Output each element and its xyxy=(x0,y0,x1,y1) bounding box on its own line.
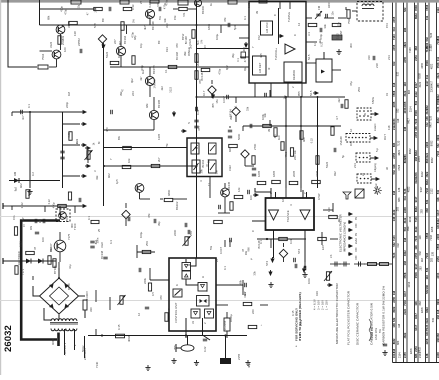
svg-text:532: 532 xyxy=(425,37,429,42)
svg-text:10.7: 10.7 xyxy=(202,90,206,96)
wire w38 xyxy=(239,37,249,39)
svg-text:0.1: 0.1 xyxy=(234,105,238,109)
svg-text:4 = 6.3V: 4 = 6.3V xyxy=(313,299,317,310)
wire w25 xyxy=(83,205,85,207)
svg-text:S: S xyxy=(187,122,191,124)
capacitor CH10 xyxy=(295,264,297,268)
svg-text:5-p: 5-p xyxy=(375,148,379,152)
svg-text:218: 218 xyxy=(375,63,379,68)
wire T1 top to bridge xyxy=(58,315,60,320)
svg-text:3122: 3122 xyxy=(419,81,422,87)
svg-text:4822: 4822 xyxy=(431,63,434,69)
resistor RH21 xyxy=(26,251,35,254)
resistor RH28 xyxy=(318,237,327,240)
svg-text:4k7: 4k7 xyxy=(118,40,122,45)
svg-text:15n: 15n xyxy=(12,215,16,220)
wire w54 xyxy=(289,2,291,10)
resistor RV4 xyxy=(53,259,56,268)
svg-text:39: 39 xyxy=(255,10,259,14)
wire w39 xyxy=(240,56,249,58)
resistor RH27 xyxy=(279,237,288,240)
svg-text:BF245: BF245 xyxy=(227,181,231,190)
svg-text:8932: 8932 xyxy=(414,13,418,19)
svg-text:3122: 3122 xyxy=(188,38,192,45)
capacitor CH23 xyxy=(341,104,343,108)
svg-text:0.047: 0.047 xyxy=(219,247,223,254)
svg-text:532: 532 xyxy=(419,251,422,256)
svg-text:330: 330 xyxy=(89,307,93,312)
svg-text:4k7: 4k7 xyxy=(139,76,143,81)
svg-text:21: 21 xyxy=(361,172,365,176)
bridge diode D13 xyxy=(65,304,70,309)
legend brace xyxy=(369,319,371,341)
connector socket J1 xyxy=(357,108,371,120)
svg-text:2155: 2155 xyxy=(237,353,241,360)
svg-text:2405: 2405 xyxy=(242,46,246,52)
svg-text:ST2: ST2 xyxy=(265,260,269,266)
resistor RV21 xyxy=(252,156,255,165)
resistor RH20 xyxy=(58,204,67,207)
capacitor CV8 xyxy=(90,246,94,248)
svg-text:AM: AM xyxy=(13,171,17,176)
svg-text:2154: 2154 xyxy=(419,352,422,358)
arrow feed y112 xyxy=(81,111,86,114)
svg-text:0508: 0508 xyxy=(418,73,421,79)
svg-text:2206: 2206 xyxy=(421,307,424,313)
resistor RV5 xyxy=(192,30,195,39)
svg-text:39: 39 xyxy=(267,128,271,132)
svg-text:52.5: 52.5 xyxy=(309,90,313,96)
junction J10 xyxy=(300,125,302,127)
svg-text:4k7: 4k7 xyxy=(143,25,147,30)
resistor RH23 xyxy=(308,23,317,26)
svg-text:5p6: 5p6 xyxy=(233,25,237,30)
svg-text:IMPEDANCE (20kΩ/V): IMPEDANCE (20kΩ/V) xyxy=(343,222,347,252)
legend symbol flatfoil xyxy=(344,262,346,267)
svg-text:138: 138 xyxy=(425,116,429,121)
capacitor CH2 xyxy=(109,7,111,11)
svg-text:4n7: 4n7 xyxy=(21,115,25,120)
wire w72 xyxy=(229,240,231,247)
legend loudspeaker symbol xyxy=(343,192,351,199)
terminal T2 xyxy=(3,260,21,262)
svg-text:2455: 2455 xyxy=(392,101,396,107)
capacitor CV7 xyxy=(90,241,94,243)
wire w91 xyxy=(140,198,151,200)
svg-text:470p: 470p xyxy=(140,65,144,71)
svg-text:0.22: 0.22 xyxy=(203,346,207,352)
wire w24 xyxy=(59,206,61,215)
svg-text:0.22: 0.22 xyxy=(67,132,71,138)
svg-text:15n: 15n xyxy=(337,21,341,26)
svg-text:BF200: BF200 xyxy=(201,5,205,14)
wire w44 xyxy=(338,17,346,19)
transistor Q7 xyxy=(135,184,144,193)
svg-text:BF195: BF195 xyxy=(157,99,161,108)
transistor Q3 xyxy=(145,9,154,18)
capacitor CH17 xyxy=(128,217,130,221)
svg-text:TAPE: TAPE xyxy=(371,97,375,104)
svg-text:16: 16 xyxy=(281,198,285,202)
svg-text:IN: IN xyxy=(363,113,367,116)
svg-text:2xAA: 2xAA xyxy=(355,238,358,244)
svg-text:5600: 5600 xyxy=(237,133,241,140)
wire w77 xyxy=(11,206,13,210)
svg-text:330: 330 xyxy=(165,23,169,28)
varicap diamond VD3 xyxy=(122,210,130,218)
svg-text:3122: 3122 xyxy=(414,226,418,232)
svg-text:470: 470 xyxy=(105,127,109,132)
svg-text:138: 138 xyxy=(392,216,396,221)
IF transistor cell 3 xyxy=(192,160,200,173)
resistor RV24 xyxy=(230,202,233,211)
junction J11 xyxy=(317,125,319,127)
svg-text:283: 283 xyxy=(431,257,434,262)
svg-text:6k8: 6k8 xyxy=(302,137,306,142)
capacitor CH24 xyxy=(373,56,375,60)
capacitor CV4 xyxy=(60,157,64,159)
dashed box mains switch xyxy=(56,209,70,222)
signal arrow AD6 xyxy=(303,267,306,272)
legend symbol regulator xyxy=(368,263,377,266)
svg-text:820: 820 xyxy=(228,147,232,152)
junction J13 xyxy=(58,277,60,279)
wire w10 xyxy=(149,67,151,76)
wire w63 xyxy=(229,284,238,286)
bridge diode D10 xyxy=(49,284,54,289)
svg-text:0.1: 0.1 xyxy=(236,58,240,62)
svg-text:1 kMΩ 5%: 1 kMΩ 5% xyxy=(370,327,374,340)
svg-text:214: 214 xyxy=(353,163,357,168)
svg-text:33k: 33k xyxy=(263,113,267,118)
pot wiper PW4 xyxy=(85,150,93,160)
pot wiper PW1 xyxy=(183,236,191,246)
svg-text:532: 532 xyxy=(392,317,396,322)
svg-text:9417: 9417 xyxy=(414,196,418,202)
svg-text:118: 118 xyxy=(414,245,418,250)
svg-text:5%: 5% xyxy=(378,328,382,333)
svg-text:39k: 39k xyxy=(215,169,219,174)
svg-text:DIN: DIN xyxy=(355,224,358,229)
svg-text:31: 31 xyxy=(191,320,195,324)
svg-text:AM OSC: AM OSC xyxy=(265,22,269,33)
wire main vertical bus x196 xyxy=(196,4,198,258)
transistor Q5 xyxy=(145,76,154,85)
svg-text:2455: 2455 xyxy=(403,352,407,358)
diode D2 xyxy=(26,259,31,264)
svg-text:0.1: 0.1 xyxy=(164,69,168,73)
svg-text:042: 042 xyxy=(392,27,396,32)
wire w35 xyxy=(196,176,198,188)
wire w53 xyxy=(279,2,281,10)
resistor RH6 xyxy=(257,181,266,184)
wire w26 xyxy=(103,205,105,207)
resistor RV13 xyxy=(274,128,277,137)
wire w86 xyxy=(245,165,254,167)
svg-text:6800: 6800 xyxy=(167,189,171,196)
svg-text:52.5: 52.5 xyxy=(307,54,311,60)
legend sun symbol xyxy=(373,186,381,194)
wire U3 top link xyxy=(255,188,271,192)
wire w59 xyxy=(137,251,155,253)
wire w83 xyxy=(235,97,237,103)
svg-text:4822: 4822 xyxy=(425,171,429,177)
wire w12 xyxy=(153,97,155,110)
svg-text:DIN: DIN xyxy=(355,248,358,253)
svg-text:118: 118 xyxy=(392,190,396,195)
wire y112 branch xyxy=(12,111,82,113)
svg-text:118: 118 xyxy=(403,237,407,242)
svg-text:8932: 8932 xyxy=(425,179,429,185)
svg-text:BC: BC xyxy=(101,18,105,22)
signal arrow AR4 xyxy=(253,194,258,197)
wire w1 xyxy=(60,24,62,27)
svg-text:7133: 7133 xyxy=(425,252,429,258)
resistor RP1 xyxy=(68,192,71,200)
wire w97 xyxy=(283,243,285,247)
svg-text:7175: 7175 xyxy=(67,233,71,240)
svg-text:10µ: 10µ xyxy=(77,4,81,9)
resistor RH10 xyxy=(229,144,238,147)
resistor RH2 xyxy=(122,165,131,168)
capacitor CH11 xyxy=(320,28,322,32)
wire U4 bottom pin 2 xyxy=(203,318,211,340)
svg-text:118: 118 xyxy=(425,275,429,280)
ground GN2 xyxy=(145,365,150,370)
wire w7 xyxy=(120,25,122,46)
diode D1 xyxy=(14,178,19,183)
svg-text:3122: 3122 xyxy=(49,41,53,48)
wire mains lead 3 xyxy=(84,336,86,358)
svg-text:300: 300 xyxy=(349,43,353,48)
svg-text:7133: 7133 xyxy=(425,324,429,330)
varicap diamond VD5 xyxy=(208,86,216,94)
wire w33 xyxy=(270,239,272,248)
svg-text:7171: 7171 xyxy=(21,268,25,275)
mains connector tick xyxy=(57,333,60,347)
junction dot xyxy=(266,238,268,240)
resistor RV11 xyxy=(15,266,18,275)
resistor RH18 xyxy=(248,325,257,328)
wire w88 xyxy=(125,219,127,226)
svg-text:2206: 2206 xyxy=(430,86,433,92)
svg-text:2122: 2122 xyxy=(414,91,418,97)
svg-text:1M: 1M xyxy=(67,91,71,96)
svg-text:BF194: BF194 xyxy=(201,159,205,167)
wire w22 xyxy=(59,252,61,262)
capacitor CH1 xyxy=(80,49,82,53)
junction J12 xyxy=(196,165,198,167)
junction J7 xyxy=(103,165,105,167)
wire w56 xyxy=(11,112,13,116)
svg-text:7140: 7140 xyxy=(95,361,99,368)
transistor Q10 xyxy=(194,0,201,7)
table rule 9 xyxy=(436,3,438,363)
svg-text:8p2: 8p2 xyxy=(225,65,229,70)
transformer T1 core xyxy=(50,322,78,324)
svg-text:962: 962 xyxy=(19,183,23,188)
svg-text:8932: 8932 xyxy=(414,206,418,212)
table rule 6 xyxy=(417,3,419,363)
capacitor CV2 xyxy=(194,126,198,128)
svg-text:042: 042 xyxy=(392,61,396,66)
svg-text:042: 042 xyxy=(425,74,429,79)
resistor R1 xyxy=(38,65,48,69)
svg-text:5322: 5322 xyxy=(325,161,329,168)
svg-text:224: 224 xyxy=(131,91,135,96)
svg-text:0508: 0508 xyxy=(425,4,429,10)
svg-text:C: C xyxy=(251,230,255,232)
wire w32 xyxy=(335,125,341,127)
signal arrow AD1 xyxy=(102,43,105,48)
svg-text:3122: 3122 xyxy=(19,241,23,247)
wire y166 branch xyxy=(104,165,196,167)
junction J8 xyxy=(29,111,31,113)
svg-text:1N4148: 1N4148 xyxy=(339,136,343,146)
svg-text:39k: 39k xyxy=(183,51,187,56)
wire w34 xyxy=(304,262,306,268)
svg-text:683: 683 xyxy=(397,340,400,345)
capacitor CV6 xyxy=(252,174,256,176)
resistor RH9 xyxy=(312,180,321,183)
legend box-with-cross symbol xyxy=(355,189,364,198)
svg-text:7133: 7133 xyxy=(403,300,407,306)
svg-text:0508: 0508 xyxy=(425,60,429,66)
svg-text:7133: 7133 xyxy=(403,188,407,194)
table rule 4 xyxy=(406,3,408,363)
svg-text:118: 118 xyxy=(403,82,407,87)
svg-text:AFC: AFC xyxy=(327,2,331,8)
svg-text:47k: 47k xyxy=(223,17,227,22)
transistor Q4 xyxy=(116,46,125,55)
svg-text:1N4007: 1N4007 xyxy=(85,290,89,300)
resistor RH22 xyxy=(214,220,223,223)
svg-text:5k6: 5k6 xyxy=(196,40,200,45)
svg-text:0.5W: 0.5W xyxy=(317,193,321,200)
svg-text:7133: 7133 xyxy=(397,140,400,146)
wire w98 xyxy=(211,94,213,98)
svg-text:K: K xyxy=(175,284,179,286)
svg-text:2154: 2154 xyxy=(408,281,411,287)
capacitor C25 xyxy=(228,23,230,27)
svg-text:G: G xyxy=(187,264,191,266)
svg-text:042: 042 xyxy=(397,243,400,248)
wire w92 xyxy=(160,198,163,200)
capacitor CH20 xyxy=(265,93,267,97)
ground GN7 xyxy=(382,350,387,355)
svg-text:100n: 100n xyxy=(307,277,311,284)
svg-text:OUT: OUT xyxy=(383,134,387,140)
wire w70 xyxy=(330,238,338,240)
capacitor CH16 xyxy=(304,266,306,270)
transistor Q1 xyxy=(56,25,65,34)
capacitor CH14 xyxy=(230,238,232,242)
svg-text:15n: 15n xyxy=(330,11,334,16)
svg-text:2154: 2154 xyxy=(418,156,421,162)
svg-text:RECTIFIER: RECTIFIER xyxy=(17,251,21,265)
signal arrow AD4 xyxy=(212,93,215,98)
svg-text:3122: 3122 xyxy=(421,171,424,177)
svg-text:SW: SW xyxy=(21,217,25,222)
capacitor CH18 xyxy=(154,219,156,223)
svg-text:4822: 4822 xyxy=(408,186,411,192)
svg-text:8932: 8932 xyxy=(414,150,418,156)
IF transistor cell 4 xyxy=(209,160,217,173)
wire U3 left pin xyxy=(252,220,266,222)
svg-text:25: 25 xyxy=(97,228,101,232)
capacitor CH25 xyxy=(111,110,113,114)
legend arrow symbols xyxy=(348,213,352,216)
wire x30 vertical xyxy=(29,112,31,188)
svg-text:8p2: 8p2 xyxy=(13,186,17,191)
svg-text:1n: 1n xyxy=(313,42,317,46)
svg-text:CONTROL UNIT: CONTROL UNIT xyxy=(174,302,178,323)
svg-text:8932: 8932 xyxy=(403,157,407,163)
ground G1 xyxy=(336,49,341,54)
svg-text:283: 283 xyxy=(403,27,407,32)
svg-text:9417: 9417 xyxy=(392,352,396,358)
wire R40 down xyxy=(84,310,86,318)
wire w11 xyxy=(149,86,151,98)
wire top-left vertical xyxy=(39,0,41,25)
capacitor CH5 xyxy=(250,124,252,128)
svg-text:0.2: 0.2 xyxy=(31,172,35,176)
wire w94 xyxy=(224,206,226,213)
svg-text:2455: 2455 xyxy=(414,131,418,137)
svg-text:470: 470 xyxy=(175,43,179,48)
svg-text:3405: 3405 xyxy=(315,170,319,177)
resistor RV22 xyxy=(316,156,319,165)
svg-text:0.68: 0.68 xyxy=(289,238,293,244)
svg-text:39p: 39p xyxy=(157,221,161,226)
resistor RH13 xyxy=(94,7,103,10)
svg-text:39k: 39k xyxy=(38,218,42,223)
wire w49 xyxy=(173,8,178,10)
svg-text:960: 960 xyxy=(70,223,74,228)
svg-text:5322: 5322 xyxy=(105,51,109,58)
svg-text:5%: 5% xyxy=(209,245,213,250)
svg-text:4822: 4822 xyxy=(398,149,401,155)
resistor RH16 xyxy=(201,68,210,71)
wire T1 left lead xyxy=(44,308,51,320)
svg-text:11: 11 xyxy=(207,183,211,186)
svg-text:532: 532 xyxy=(396,108,399,113)
svg-text:0.1: 0.1 xyxy=(87,216,91,220)
wire w85 xyxy=(244,158,246,166)
svg-text:548: 548 xyxy=(93,23,97,28)
svg-text:0.22: 0.22 xyxy=(196,109,200,115)
svg-text:ITEMS TO BE ADDED (DEALERS): ITEMS TO BE ADDED (DEALERS) xyxy=(298,292,302,341)
top scan edge band xyxy=(0,0,439,3)
svg-text:0.22: 0.22 xyxy=(310,138,314,144)
svg-text:47µ: 47µ xyxy=(349,81,353,86)
svg-text:960: 960 xyxy=(246,247,250,252)
wire w76 xyxy=(87,148,89,163)
wire w29 xyxy=(242,126,244,131)
wire w82 xyxy=(269,90,271,97)
svg-text:ST2: ST2 xyxy=(297,248,301,254)
svg-text:8p2: 8p2 xyxy=(130,78,134,83)
trimmer capacitor CT1 xyxy=(316,14,320,16)
svg-text:7133: 7133 xyxy=(392,252,396,258)
wire U4 right feed xyxy=(216,284,243,286)
pot wiper PW3 xyxy=(324,271,332,281)
svg-text:4094: 4094 xyxy=(127,335,131,342)
wire w73 xyxy=(63,123,81,125)
wire x286 vertical xyxy=(285,97,287,188)
op-amp A1 xyxy=(285,44,295,54)
svg-text:BC148: BC148 xyxy=(151,21,155,30)
